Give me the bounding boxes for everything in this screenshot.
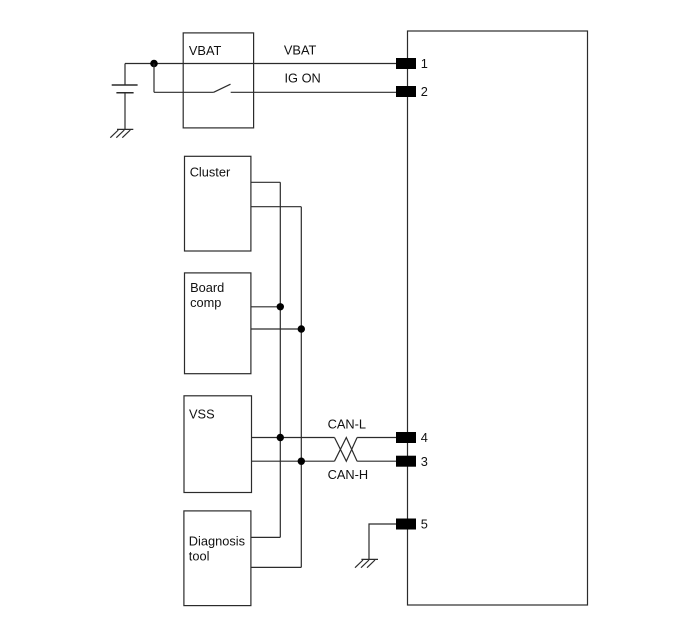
wire VBAT net (battery to pin 1) [125, 63, 396, 65]
wire Cluster to bus1 [251, 181, 280, 183]
pin 4 [396, 430, 428, 445]
pin 3 [396, 454, 428, 469]
wire CAN-H left segment (VSS to twist) [252, 460, 335, 462]
Board comp box [185, 273, 251, 374]
wire CAN-L right segment (twist to pin 4) [357, 437, 396, 439]
junction node bus2 / board comp [298, 325, 305, 332]
pin 5 [396, 517, 428, 532]
battery B1 negative lead [124, 93, 126, 130]
junction node bus1 / board comp [277, 303, 284, 310]
wire Board comp to bus1 [251, 306, 280, 308]
Cluster box [185, 156, 251, 251]
svg-text:tool: tool [189, 548, 210, 563]
switch S1 blade (open) [214, 84, 231, 92]
ground (pin 5) [355, 559, 378, 567]
wire Cluster to bus2 [251, 206, 301, 208]
svg-text:VSS: VSS [189, 407, 215, 422]
svg-text:comp: comp [190, 295, 221, 310]
svg-text:5: 5 [421, 517, 428, 532]
svg-text:1: 1 [421, 56, 428, 71]
junction node bus2 / CAN-H [298, 458, 305, 465]
svg-text:VBAT: VBAT [284, 43, 317, 58]
wire Diagnosis tool to bus1 [251, 536, 280, 538]
junction node on VBAT wire [150, 60, 158, 68]
twisted pair symbol wire A [335, 438, 358, 462]
twisted pair symbol wire B [335, 438, 358, 462]
svg-text:IG ON: IG ON [285, 70, 321, 85]
wire pin 5 to ground [369, 524, 396, 559]
wire CAN-L left segment (VSS to twist) [252, 437, 335, 439]
svg-text:Diagnosis: Diagnosis [189, 534, 245, 549]
wire IG ON left segment [154, 91, 214, 93]
VSS box [184, 396, 252, 493]
VBAT supply box [183, 33, 253, 128]
wire Board comp to bus2 [251, 328, 301, 330]
wire CAN-H right segment (twist to pin 3) [357, 460, 396, 462]
bus1 vertical (CAN-L bus) [279, 182, 281, 537]
wire Diagnosis tool to bus2 [251, 566, 301, 568]
ground (battery) [110, 129, 133, 137]
svg-text:Board: Board [190, 280, 224, 295]
ECU module box [408, 31, 588, 605]
svg-text:3: 3 [421, 454, 428, 469]
svg-text:Cluster: Cluster [190, 164, 231, 179]
pin 2 [396, 84, 428, 99]
Diagnosis tool box [184, 511, 251, 606]
junction node bus1 / CAN-L [277, 434, 284, 441]
svg-text:2: 2 [421, 84, 428, 99]
svg-text:CAN-H: CAN-H [328, 467, 369, 482]
svg-text:CAN-L: CAN-L [328, 417, 366, 432]
svg-text:4: 4 [421, 430, 428, 445]
wire IG ON right segment (to pin 2) [231, 91, 396, 93]
pin 1 [396, 56, 428, 71]
wire from junction down to IG line [153, 64, 155, 93]
bus2 vertical (CAN-H bus) [300, 207, 302, 568]
battery B1 plates [112, 85, 138, 93]
battery B1 positive lead [124, 64, 126, 86]
svg-text:VBAT: VBAT [189, 43, 222, 58]
